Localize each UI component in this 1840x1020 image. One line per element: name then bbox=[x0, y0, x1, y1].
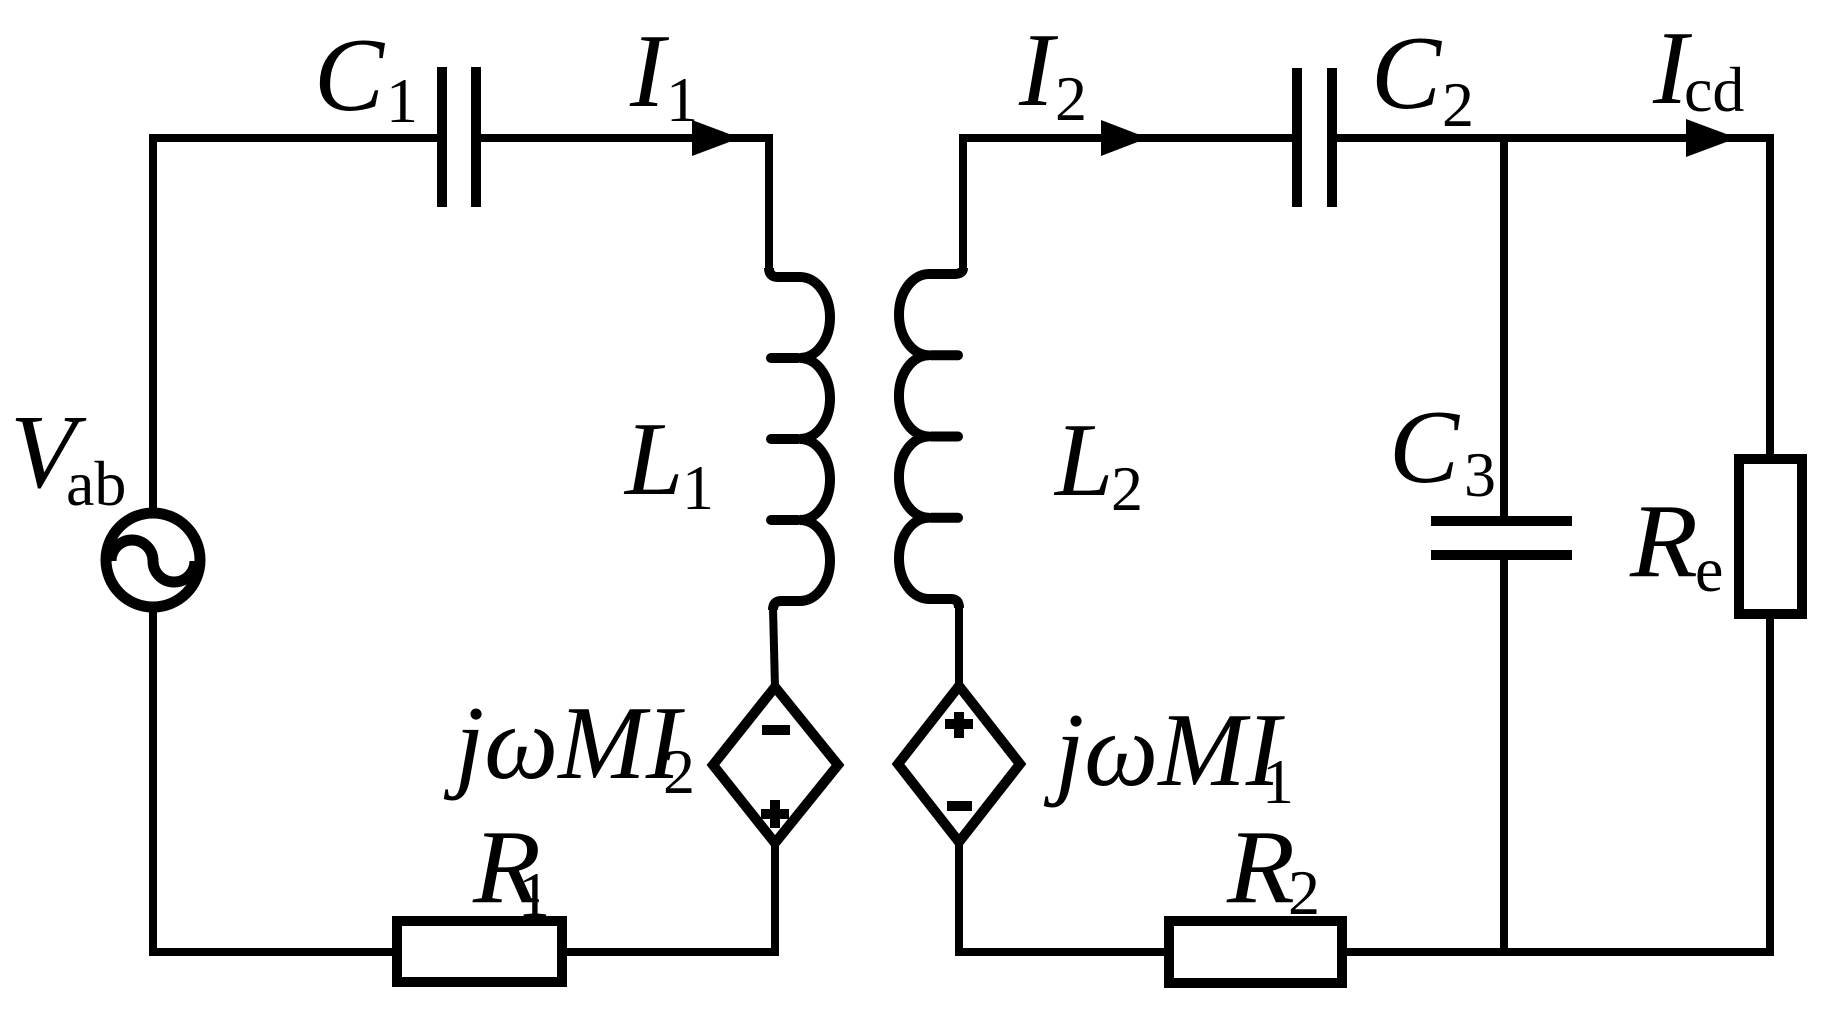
svg-text:1: 1 bbox=[1262, 746, 1294, 817]
svg-text:2: 2 bbox=[1055, 63, 1087, 134]
inductor L1 bbox=[769, 268, 830, 610]
capacitor C3 plates bbox=[1431, 521, 1572, 555]
dependent source U2 diamond jwMI1 bbox=[898, 686, 1020, 842]
resistor R1 box bbox=[397, 921, 562, 982]
resistor R2 box bbox=[1169, 921, 1342, 983]
svg-text:2: 2 bbox=[1442, 69, 1474, 140]
dependent source U1 diamond jwMI2 bbox=[713, 687, 838, 843]
svg-text:C: C bbox=[314, 16, 386, 133]
wire bottom rail right loop bbox=[955, 948, 1774, 956]
inductor L2 bbox=[899, 268, 963, 608]
U2 plus sign bbox=[945, 712, 973, 738]
wire L2 bottom to diamond2 top bbox=[955, 606, 963, 686]
wire right loop: top-left vertical down to L2 bbox=[963, 138, 1292, 268]
U1 minus sign bbox=[762, 725, 790, 735]
svg-text:1: 1 bbox=[666, 64, 698, 135]
svg-text:1: 1 bbox=[518, 859, 550, 930]
U1 plus sign bbox=[761, 800, 789, 828]
wire top-left from C1 to corner, down to L1 bbox=[476, 138, 769, 268]
wire L1 bottom to diamond1 top bbox=[773, 608, 775, 687]
svg-text:L: L bbox=[1053, 401, 1113, 518]
arrow Icd bbox=[1686, 119, 1737, 157]
capacitor C2 plates bbox=[1297, 68, 1332, 207]
svg-text:2: 2 bbox=[1111, 453, 1143, 524]
resistor Re box bbox=[1739, 459, 1802, 614]
svg-text:C: C bbox=[1371, 14, 1443, 131]
wire diamond2 bottom to bottom rail bbox=[955, 842, 963, 956]
wire diamond1 bottom to bottom rail bbox=[771, 843, 779, 956]
svg-text:R: R bbox=[1629, 482, 1698, 599]
arrow I2 bbox=[1101, 120, 1148, 156]
source sine wave bbox=[111, 540, 195, 582]
svg-text:ab: ab bbox=[66, 448, 126, 519]
svg-text:2: 2 bbox=[663, 736, 695, 807]
wire C3 branch upper bbox=[1500, 138, 1508, 517]
svg-text:C: C bbox=[1389, 388, 1461, 505]
svg-text:R: R bbox=[1226, 808, 1295, 925]
svg-text:3: 3 bbox=[1464, 439, 1496, 510]
svg-text:1: 1 bbox=[682, 452, 714, 523]
svg-text:I: I bbox=[1018, 11, 1059, 128]
svg-text:e: e bbox=[1695, 534, 1723, 605]
wire left loop: left vertical bbox=[153, 138, 437, 956]
U2 minus sign bbox=[947, 801, 972, 811]
capacitor C1 plates bbox=[442, 67, 476, 207]
svg-text:1: 1 bbox=[386, 65, 418, 136]
wire bottom rail left loop bbox=[149, 948, 776, 956]
svg-text:I: I bbox=[629, 12, 670, 129]
arrow I1 bbox=[692, 120, 740, 156]
svg-text:jωMI: jωMI bbox=[443, 684, 686, 801]
svg-text:cd: cd bbox=[1684, 54, 1744, 125]
svg-text:jωMI: jωMI bbox=[1043, 691, 1286, 808]
svg-text:2: 2 bbox=[1288, 857, 1320, 928]
wire C3 branch lower bbox=[1500, 559, 1508, 952]
source Vab circle bbox=[106, 513, 200, 607]
wire C2 right plate to top-right corner bbox=[1337, 134, 1770, 142]
wire right vertical through Re bbox=[1766, 134, 1774, 956]
svg-text:L: L bbox=[623, 400, 683, 517]
